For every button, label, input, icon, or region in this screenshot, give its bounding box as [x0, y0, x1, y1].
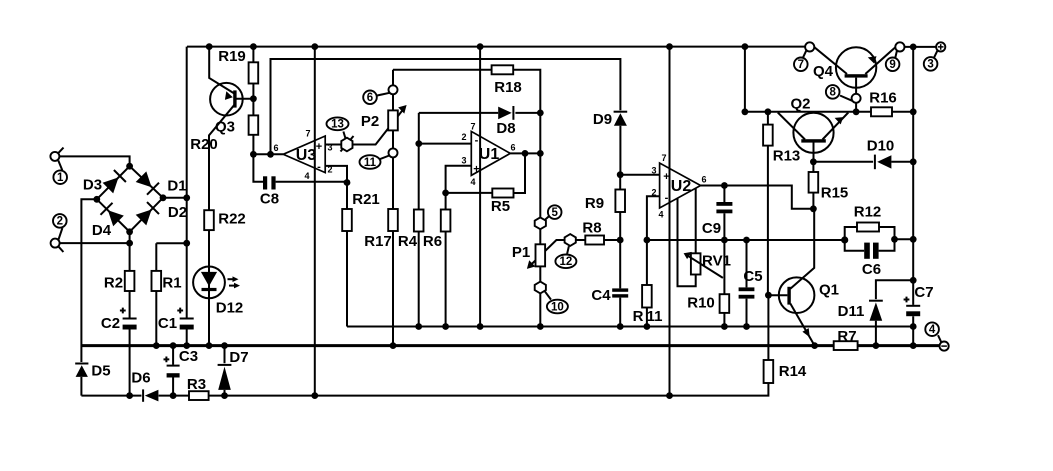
svg-text:P1: P1 — [512, 244, 530, 261]
led D12 — [193, 267, 225, 299]
svg-text:D9: D9 — [593, 111, 612, 128]
svg-text:D1: D1 — [167, 178, 186, 195]
wire top rail drop to Q2 base line — [744, 47, 746, 112]
wire U3 output node — [253, 153, 283, 155]
svg-text:+: + — [663, 171, 669, 183]
svg-text:C6: C6 — [862, 261, 881, 278]
node terminal label 4 — [925, 322, 939, 336]
wire P2 wiper from terminal13 — [353, 110, 403, 145]
opamp U3 — [283, 136, 325, 173]
svg-text:Q2: Q2 — [790, 96, 810, 113]
svg-text:D5: D5 — [91, 363, 110, 380]
wire Q2 collector stem — [813, 143, 815, 162]
resistor R13 — [763, 125, 773, 146]
terminal 12 pad — [565, 234, 576, 246]
svg-text:9: 9 — [889, 59, 895, 71]
wire terminal6 P2 terminal11 R17 chain — [392, 70, 394, 346]
wire D9 to U2 pin3 — [620, 126, 659, 175]
wire RV1 top offset pin — [695, 189, 697, 254]
capacitor C8 — [263, 176, 267, 189]
wire C6 right feed link — [895, 238, 914, 240]
wire U3 pin3 lead to terminal13 — [325, 144, 341, 146]
svg-text:4: 4 — [470, 177, 475, 187]
diode D8 — [498, 107, 512, 120]
wire terminal2 line — [60, 242, 130, 244]
svg-text:R5: R5 — [491, 198, 510, 215]
svg-text:R15: R15 — [821, 185, 849, 202]
wire C3 branch — [172, 346, 174, 396]
wire U1 out down to terminal5 P1 terminal10 — [539, 113, 541, 327]
svg-text:C1: C1 — [158, 315, 177, 332]
wire terminal1 to bridge top vertex — [59, 156, 129, 166]
svg-text:11: 11 — [647, 308, 663, 325]
svg-text:11: 11 — [364, 157, 377, 169]
svg-text:R4: R4 — [398, 233, 418, 250]
svg-text:Q4: Q4 — [813, 63, 834, 80]
svg-text:R8: R8 — [582, 220, 601, 237]
wire right vertical rail — [912, 47, 914, 346]
terminal 7 — [805, 42, 814, 51]
wire D10 line — [813, 161, 913, 163]
node R11 U2pin2 line — [647, 239, 845, 241]
resistor R15 — [809, 172, 819, 193]
wire Q1 collector — [790, 209, 814, 289]
resistor R18 — [492, 65, 514, 74]
svg-text:D10: D10 — [867, 138, 895, 155]
trimmer RV1 — [691, 253, 701, 274]
svg-text:C3: C3 — [179, 348, 198, 365]
wire U3 pin7 pin4 vertical — [314, 47, 316, 396]
capacitor C2 — [123, 318, 137, 320]
wire R1 vertical — [155, 243, 157, 345]
node terminal label 7 — [794, 58, 808, 72]
wire Q3 collector down to R22 — [209, 105, 235, 211]
wire Q4 left diagonal to terminal7 — [814, 47, 847, 74]
svg-text:C8: C8 — [260, 191, 279, 208]
svg-text:R18: R18 — [494, 79, 522, 96]
svg-text:7: 7 — [305, 129, 310, 139]
node terminal label 11 — [360, 155, 381, 169]
svg-text:R20: R20 — [190, 136, 218, 153]
wire U1 output — [510, 152, 540, 154]
transistor Q2 — [793, 113, 833, 153]
svg-text:2: 2 — [327, 165, 332, 175]
svg-text:10: 10 — [551, 301, 564, 313]
diode D10 — [874, 155, 876, 170]
wire U2 output to R15 bottom — [701, 186, 814, 209]
wire R19 from rail — [252, 47, 254, 155]
wire R6 vertical — [445, 232, 447, 327]
wire D8 drop to U1 pin2 — [418, 113, 420, 144]
wire bridge bottom vertex through R2 C2 down to lower line — [129, 232, 131, 396]
resistor R10 — [720, 294, 730, 313]
diode D9 — [614, 111, 628, 113]
resistor R1 — [152, 271, 162, 291]
node junction dots right area — [891, 236, 898, 243]
node Q2 base line — [745, 111, 871, 113]
svg-text:C4: C4 — [591, 287, 611, 304]
svg-text:+: + — [316, 141, 322, 153]
node junction dots mid line — [415, 323, 422, 330]
terminal 9 — [895, 42, 904, 51]
diode D1 — [136, 171, 152, 187]
wire RV1 bottom offset pin — [678, 198, 696, 286]
wire R10 bottom — [723, 313, 725, 327]
svg-text:C2: C2 — [101, 315, 120, 332]
wire D7 branch — [224, 346, 226, 396]
wire bridge left vertex down to rail and D5 — [81, 199, 96, 395]
wire U2 pin7 pin4 vertical — [669, 47, 671, 396]
wire U2 pin2 lead — [647, 196, 660, 285]
node terminal label 5 — [548, 205, 562, 219]
svg-text:R22: R22 — [218, 211, 246, 228]
capacitor C7 — [906, 305, 920, 307]
svg-text:C9: C9 — [702, 220, 721, 237]
resistor R5 — [492, 189, 513, 198]
diode D4 — [108, 210, 124, 226]
terminal 13 pad — [341, 136, 354, 152]
diode D3 — [103, 177, 119, 193]
svg-text:R14: R14 — [779, 363, 807, 380]
wire R16 right lead — [892, 111, 913, 113]
node terminal label 9 — [886, 58, 900, 72]
wire top positive rail — [187, 46, 805, 48]
wire D8 line — [419, 112, 541, 114]
svg-text:R1: R1 — [162, 275, 181, 292]
wire R14 vertical — [767, 295, 769, 360]
terminal 4 negative output — [940, 342, 949, 351]
diode D11 — [869, 300, 883, 302]
svg-text:R21: R21 — [352, 191, 380, 208]
svg-text:2: 2 — [57, 216, 63, 228]
wire Q2 left diagonal — [778, 113, 805, 140]
node junction dots top rail — [206, 43, 213, 50]
svg-text:R17: R17 — [364, 233, 392, 250]
svg-text:-: - — [475, 135, 479, 147]
wire R12 C6 loop — [845, 227, 895, 251]
resistor R20 — [249, 115, 259, 134]
resistor R2 — [125, 271, 135, 291]
wire RV1 wiper to R10 — [723, 240, 725, 294]
node junction dots U1 area — [415, 140, 422, 147]
svg-text:12: 12 — [560, 256, 573, 268]
resistor R12 — [857, 223, 879, 232]
wire Q3 base to R19/R20 junction — [236, 98, 253, 100]
node mid line — [347, 326, 913, 328]
node junction dots bottom rail — [153, 342, 160, 349]
wire C8 right lead to U3 pin2 riser — [276, 166, 347, 182]
svg-text:R13: R13 — [773, 148, 801, 165]
wire Q3 emitter up to top rail — [209, 47, 234, 94]
svg-text:Q3: Q3 — [215, 119, 235, 136]
svg-text:C5: C5 — [743, 268, 762, 285]
terminal 8 — [852, 94, 861, 103]
svg-text:6: 6 — [367, 92, 373, 104]
svg-text:R: R — [633, 308, 644, 325]
svg-text:D3: D3 — [83, 177, 102, 194]
opamp U2 — [660, 163, 701, 208]
svg-text:D7: D7 — [229, 349, 248, 366]
svg-text:R12: R12 — [854, 204, 882, 221]
transistor Q3 — [210, 83, 243, 116]
svg-text:R3: R3 — [187, 376, 206, 393]
wire terminal9 to terminal3 — [905, 46, 937, 48]
svg-text:8: 8 — [829, 87, 836, 99]
svg-text:6: 6 — [273, 143, 278, 153]
wire Q1 base lead — [768, 294, 787, 296]
node main bottom rail right — [858, 344, 940, 347]
svg-text:Q1: Q1 — [819, 282, 839, 299]
svg-text:4: 4 — [658, 210, 663, 220]
diode D2 — [136, 210, 152, 226]
svg-text:7: 7 — [798, 59, 804, 71]
wire R1 top link — [156, 242, 186, 244]
svg-text:4: 4 — [304, 171, 309, 181]
terminal 2 — [51, 239, 60, 248]
resistor R19 — [249, 62, 259, 83]
svg-text:R7: R7 — [837, 328, 856, 345]
transistor Q4 — [836, 47, 876, 87]
terminal 1 — [50, 152, 59, 161]
svg-text:D12: D12 — [216, 300, 244, 317]
potentiometer P1 — [536, 244, 546, 266]
wire C9 branch — [723, 186, 725, 241]
resistor R16 — [871, 107, 892, 116]
svg-text:D6: D6 — [131, 370, 150, 387]
svg-text:C7: C7 — [914, 284, 933, 301]
diode D7 — [218, 364, 232, 366]
wire U1 pin3 lead — [446, 166, 472, 210]
node terminal label 12 — [555, 254, 576, 268]
potentiometer P2 — [388, 110, 398, 130]
svg-text:5: 5 — [551, 207, 558, 219]
svg-text:3: 3 — [651, 166, 656, 176]
svg-text:R6: R6 — [423, 233, 442, 250]
wire C5 branch — [746, 240, 748, 327]
resistor R3 — [189, 391, 209, 400]
capacitor C9 — [716, 202, 732, 206]
svg-text:7: 7 — [661, 153, 666, 163]
resistor R9 — [615, 190, 625, 213]
node terminal label 3 — [924, 57, 938, 71]
node terminal label 6 — [363, 91, 377, 105]
svg-text:U3: U3 — [296, 147, 317, 164]
capacitor C6 — [864, 243, 870, 259]
wire R21 down to mid line — [346, 183, 348, 327]
resistor R6 — [441, 210, 451, 232]
svg-text:3: 3 — [461, 156, 466, 166]
node junction dots lower line — [126, 392, 133, 399]
capacitor C3 — [167, 365, 180, 367]
svg-text:6: 6 — [510, 143, 515, 153]
resistor R22 — [204, 210, 214, 230]
node terminal label 1 — [53, 170, 67, 184]
node junction dots U2 area — [617, 171, 624, 178]
node terminal label 13 — [327, 117, 349, 130]
svg-text:+: + — [473, 164, 479, 176]
wire D11 link — [876, 280, 913, 345]
wire Q4 right diagonal to terminal9 — [865, 47, 895, 74]
wire R11 bottom — [646, 308, 648, 327]
wire Q1 emitter to rail — [790, 304, 814, 346]
resistor R11 — [642, 285, 652, 308]
resistor R7 — [834, 341, 858, 350]
svg-text:4: 4 — [929, 324, 936, 336]
wire R5 leads — [446, 153, 525, 193]
wire R18 top link from P2 top — [393, 70, 540, 113]
svg-text:-: - — [665, 192, 669, 204]
svg-text:D11: D11 — [838, 303, 865, 320]
svg-text:2: 2 — [461, 132, 466, 142]
node terminal label 8 — [826, 85, 840, 99]
wire R4 vertical — [418, 144, 420, 327]
wire Q4 base stem terminal8 — [855, 78, 857, 112]
wire U1 pin2 lead — [419, 143, 472, 145]
wire left main vertical (bridge + to top rail, down to C1) — [186, 47, 188, 346]
svg-text:R10: R10 — [687, 295, 715, 312]
wire R8 leads — [576, 239, 620, 241]
svg-text:R9: R9 — [585, 195, 604, 212]
terminal 11 — [389, 148, 398, 157]
diode D5 — [75, 363, 88, 365]
transistor Q1 — [779, 277, 815, 313]
terminal 5 pad — [535, 217, 546, 229]
svg-text:6: 6 — [701, 175, 706, 185]
node main bottom rail left — [81, 344, 833, 347]
wire bridge right vertex link — [163, 197, 187, 199]
wire second rail — [271, 59, 621, 154]
wire bridge diamond edges — [97, 166, 163, 232]
resistor R8 — [585, 236, 604, 245]
wire R13 vertical to Q1 base — [767, 112, 769, 295]
svg-text:D4: D4 — [92, 222, 112, 239]
wire D12 R22 vertical to rail — [208, 230, 210, 346]
svg-text:3: 3 — [927, 59, 933, 71]
wire C8 left lead — [253, 154, 263, 182]
terminal 10 pad — [535, 282, 546, 294]
node junction dots U3 area — [250, 95, 257, 102]
svg-text:U1: U1 — [479, 146, 500, 163]
terminal 6 — [389, 85, 398, 94]
capacitor C4 — [612, 288, 628, 291]
svg-text:7: 7 — [470, 122, 475, 132]
wire P1 wiper to terminal12 — [530, 240, 564, 266]
svg-text:R2: R2 — [104, 275, 123, 292]
svg-text:P2: P2 — [361, 113, 379, 130]
opamp U1 — [471, 131, 510, 175]
node junction dots bridge — [126, 163, 133, 170]
node terminal label 10 — [547, 300, 568, 314]
svg-text:2: 2 — [651, 188, 656, 198]
svg-text:D8: D8 — [496, 120, 515, 137]
node lower negative line — [81, 383, 768, 396]
resistor R21 — [342, 209, 352, 231]
resistor R17 — [388, 209, 398, 231]
svg-text:R19: R19 — [218, 48, 246, 65]
wire U1 pin7 pin4 vertical — [479, 47, 481, 327]
svg-text:13: 13 — [331, 119, 344, 131]
terminal 3 positive output — [936, 42, 945, 51]
resistor R14 — [764, 360, 774, 383]
svg-text:-: - — [317, 161, 321, 173]
diode D6 — [142, 389, 144, 401]
wire Q2 right diagonal — [823, 113, 849, 140]
svg-text:3: 3 — [327, 143, 332, 153]
svg-text:D2: D2 — [168, 204, 187, 221]
svg-text:R16: R16 — [869, 90, 897, 107]
wire R15 leads — [812, 162, 814, 209]
capacitor C5 — [739, 287, 755, 291]
resistor R4 — [414, 210, 424, 232]
wire R9 C4 branch — [619, 175, 621, 327]
svg-text:1: 1 — [57, 172, 64, 184]
node terminal label 2 — [53, 214, 67, 228]
svg-text:RV1: RV1 — [702, 253, 731, 270]
svg-text:U2: U2 — [671, 178, 692, 195]
capacitor C1 — [180, 318, 194, 320]
